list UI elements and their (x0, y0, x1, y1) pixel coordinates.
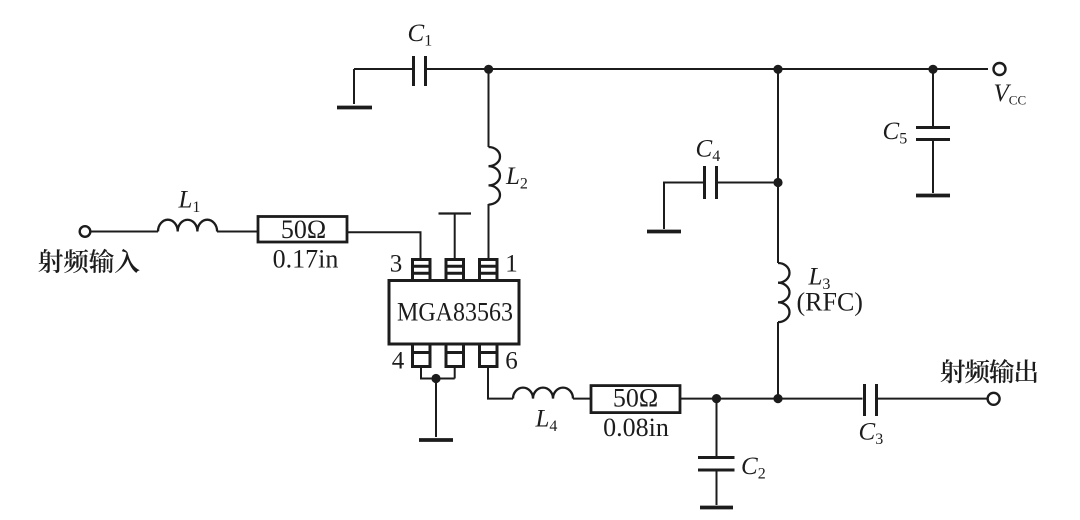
ground at C4 (647, 230, 681, 234)
wire 50ohm line to pin 3 (347, 232, 421, 259)
wire C3 to output terminal (878, 398, 988, 400)
ground at C2 (700, 506, 733, 510)
50ohm microstrip box (input) (258, 217, 347, 243)
wire C4 left lead and ground riser (664, 183, 703, 230)
wire L2 branch upper (488, 69, 490, 147)
capacitor C2 (698, 458, 735, 471)
pin bottom 3 (480, 344, 498, 367)
inductor L2 (489, 147, 501, 205)
svg-text:0.08in: 0.08in (603, 413, 669, 442)
ground at C1 (337, 106, 372, 110)
50ohm microstrip box (output) (591, 386, 680, 413)
junction node top-L3 (773, 65, 782, 74)
svg-text:3: 3 (390, 250, 403, 277)
svg-text:1: 1 (505, 250, 518, 277)
wire L2 to pin 1 (488, 204, 490, 260)
svg-text:(RFC): (RFC) (797, 288, 863, 317)
output terminal (988, 393, 1000, 405)
capacitor C4 (705, 166, 717, 199)
wire L3 to output node (777, 322, 779, 399)
pin top 3 (480, 260, 498, 281)
wire C4 right lead (718, 182, 778, 184)
pin bottom 1 (413, 344, 431, 367)
inductor L1 (158, 220, 217, 232)
wire ground node down (435, 379, 437, 438)
svg-text:4: 4 (392, 347, 405, 374)
wire L4 to 50ohm line (573, 398, 591, 400)
pin top 1 (413, 260, 431, 281)
Vcc terminal (994, 63, 1006, 75)
ground below IC pins 4/5 (419, 438, 453, 442)
junction node C2 (712, 394, 721, 403)
wire input terminal to L1 (91, 231, 159, 233)
svg-text:50Ω: 50Ω (613, 384, 658, 413)
wire 50ohm line to C3 (680, 398, 863, 400)
junction node pin45 ground (431, 374, 440, 383)
op-amp U1 MGA83563 body (389, 281, 519, 345)
wire C5 top lead (932, 69, 934, 126)
wire C5 bottom lead (932, 141, 934, 193)
ground bar above pin 2 (439, 212, 472, 214)
junction node L3-output (773, 394, 782, 403)
wire C2 top lead (716, 399, 718, 456)
wire L1 to 50ohm line (217, 231, 258, 233)
junction node top-C5 (928, 65, 937, 74)
wire pin 2 ground lead (454, 214, 456, 260)
wire Vcc rail to C4/L3 node (777, 69, 779, 263)
junction node top-L2 (484, 65, 493, 74)
inductor L4 (513, 388, 573, 399)
wire pin 4 to ground node (421, 367, 455, 379)
svg-text:50Ω: 50Ω (281, 215, 326, 244)
wire top rail left of C1 (354, 68, 412, 70)
svg-text:0.17in: 0.17in (273, 244, 339, 273)
capacitor C3 (865, 384, 877, 416)
pin top 2 (446, 260, 464, 281)
svg-text:6: 6 (505, 347, 518, 374)
ground at C5 (916, 194, 950, 198)
capacitor C5 (916, 128, 950, 140)
wire C1 ground riser (353, 69, 355, 104)
wire C2 bottom lead (716, 471, 718, 505)
pin bottom 2 (446, 344, 464, 367)
junction node C4-L3 (773, 178, 782, 187)
wire top rail C1 to Vcc (426, 68, 988, 70)
capacitor C1 (414, 56, 426, 86)
input terminal (80, 226, 91, 237)
label RF input (she pin shu ru) (38, 249, 63, 273)
wire pin 5 to ground node (454, 367, 456, 379)
wire pin 6 to L4 (488, 367, 513, 399)
inductor L3 (778, 263, 790, 322)
label RF output (she pin shu chu) (941, 359, 966, 383)
svg-text:MGA83563: MGA83563 (397, 297, 513, 326)
